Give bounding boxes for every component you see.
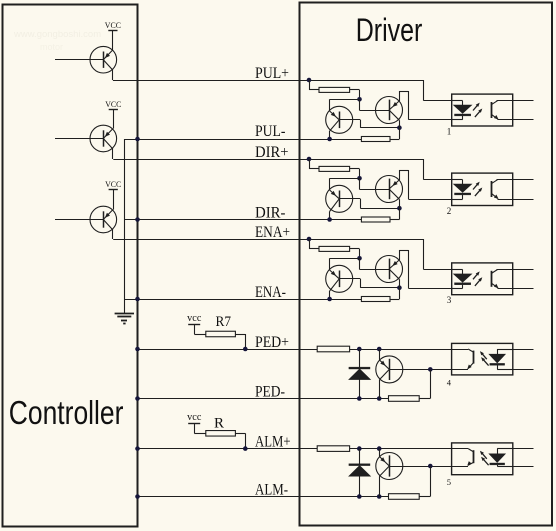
junction [377, 396, 382, 401]
resistor R7 [206, 331, 236, 337]
label Driver [356, 12, 423, 48]
junction [397, 285, 402, 290]
wire [330, 178, 360, 190]
node DIR- [255, 205, 286, 222]
resistor R1a [319, 87, 350, 92]
wire [112, 149, 114, 159]
power VCC Q3 [105, 179, 121, 189]
wire [350, 90, 360, 100]
wire [379, 380, 381, 399]
transistor Q9 [376, 256, 403, 283]
wire [235, 334, 245, 349]
wire [424, 80, 452, 101]
wire PUL+ [113, 80, 424, 82]
driver box [300, 3, 553, 526]
node DIR+ [255, 144, 289, 161]
junction [357, 176, 362, 181]
wire [390, 139, 399, 141]
svg-text:3: 3 [447, 295, 452, 305]
wire [379, 349, 381, 360]
controller box [3, 5, 138, 527]
wire [399, 120, 401, 139]
junction [357, 396, 362, 401]
wire DIR- [124, 219, 361, 221]
junction [397, 125, 402, 130]
svg-text:vcc: vcc [187, 412, 202, 423]
node PED- [255, 384, 285, 401]
wire PED+ [138, 349, 452, 351]
junction [428, 367, 433, 372]
junction [243, 347, 248, 352]
wire [389, 369, 451, 371]
resistor R5a [317, 446, 349, 452]
wire [329, 131, 331, 139]
svg-text:VCC: VCC [105, 20, 121, 30]
wire DIR+ [113, 159, 423, 161]
wire [419, 466, 430, 497]
junction [377, 347, 382, 352]
resistor R2b [361, 217, 390, 222]
transistor Q5 [376, 97, 403, 124]
wire [360, 178, 390, 189]
node R7 value [216, 314, 232, 330]
svg-text:PUL-: PUL- [255, 123, 286, 140]
node PED+ [255, 334, 289, 351]
power VCC Q1 [105, 20, 121, 31]
wire [399, 279, 401, 299]
junction [307, 78, 312, 83]
svg-text:DIR+: DIR+ [255, 144, 289, 161]
node pin 5 [447, 477, 451, 487]
junction [377, 494, 382, 499]
junction [357, 446, 362, 451]
wire [112, 230, 114, 239]
wire [513, 369, 534, 371]
wire [112, 30, 114, 49]
wire [350, 249, 360, 259]
junction [135, 137, 140, 142]
svg-text:ENA+: ENA+ [255, 224, 290, 241]
svg-text:PUL+: PUL+ [255, 65, 289, 82]
wire [498, 119, 534, 121]
wire [124, 139, 126, 313]
wire [389, 466, 451, 468]
junction [357, 347, 362, 352]
wire [360, 99, 390, 110]
svg-text:PED+: PED+ [255, 334, 289, 351]
junction [397, 206, 402, 211]
resistor R4a [317, 346, 349, 352]
node pin 4 [447, 377, 452, 387]
node pin 2 [447, 206, 452, 216]
wire [113, 189, 115, 209]
svg-text:DIR-: DIR- [255, 205, 286, 222]
svg-text:ENA-: ENA- [255, 284, 286, 301]
svg-text:2: 2 [447, 206, 452, 216]
wire [399, 170, 452, 200]
wire [424, 239, 452, 270]
node R value [214, 416, 225, 432]
transistor Q6 [326, 185, 353, 212]
junction [357, 256, 362, 261]
wire PED- [138, 398, 389, 400]
wire [330, 99, 360, 111]
svg-text:vcc: vcc [187, 313, 202, 324]
junction [357, 494, 362, 499]
transistor Q2 [55, 125, 117, 152]
power VCC R7 [187, 313, 202, 325]
node ENA+ [255, 224, 290, 241]
junction [307, 157, 312, 162]
svg-text:PED-: PED- [255, 384, 285, 401]
transistor Q7 [376, 176, 403, 203]
wire [497, 100, 534, 102]
wire [112, 70, 114, 80]
wire [339, 279, 399, 288]
svg-text:ALM+: ALM+ [255, 434, 291, 451]
svg-text:Driver: Driver [356, 12, 423, 48]
node pin 3 [447, 295, 452, 305]
wire [513, 448, 534, 450]
wire [399, 199, 401, 219]
wire [309, 80, 319, 90]
svg-text:ALM-: ALM- [255, 482, 288, 499]
transistor Q3 [55, 206, 117, 233]
wire [329, 212, 331, 220]
transistor Q10 [376, 356, 403, 383]
junction [327, 297, 332, 302]
optocoupler U1 [452, 94, 513, 126]
svg-text:Controller: Controller [9, 394, 124, 431]
wire [497, 179, 534, 181]
wire [390, 219, 399, 221]
power VCC R [187, 412, 202, 423]
wire [309, 239, 319, 249]
transistor Q8 [326, 265, 353, 292]
node PUL+ [255, 65, 289, 82]
junction [243, 446, 248, 451]
wire [399, 250, 452, 289]
wire [194, 424, 206, 434]
wire [329, 291, 331, 299]
svg-text:4: 4 [447, 377, 452, 387]
svg-text:1: 1 [447, 127, 452, 137]
wire [452, 466, 468, 468]
optocoupler U4 [452, 343, 513, 375]
wire [419, 369, 430, 398]
optocoupler U2 [452, 173, 513, 205]
wire [350, 169, 360, 179]
wire [497, 269, 534, 271]
node pin 1 [447, 127, 452, 137]
svg-text:5: 5 [447, 477, 451, 487]
wire ENA- [124, 299, 361, 301]
resistor R2a [319, 166, 350, 171]
wire ALM- [138, 496, 389, 498]
junction [135, 347, 140, 352]
svg-text:R7: R7 [216, 314, 232, 330]
optocoupler U3 [452, 263, 513, 295]
diode D2 [349, 449, 370, 497]
svg-text:motor: motor [40, 42, 63, 52]
wire [309, 159, 319, 169]
wire [235, 433, 245, 448]
transistor Q4 [326, 106, 353, 133]
power VCC Q2 [105, 99, 121, 109]
transistor Q1 [55, 46, 117, 73]
svg-text:R: R [214, 416, 225, 432]
wire [390, 299, 399, 301]
resistor R5b [389, 494, 420, 500]
wire [452, 369, 468, 371]
junction [327, 217, 332, 222]
resistor R4b [389, 396, 420, 402]
resistor R3b [361, 297, 390, 302]
junction [428, 464, 433, 469]
wire [379, 476, 381, 496]
wire ENA+ [113, 239, 423, 241]
resistor R [206, 431, 236, 437]
svg-text:VCC: VCC [105, 179, 121, 189]
wire PUL- [124, 139, 361, 141]
node ENA- [255, 284, 286, 301]
resistor R1b [361, 137, 390, 142]
wire [399, 91, 452, 120]
diode D1 [349, 349, 370, 399]
junction [377, 446, 382, 451]
wire [330, 258, 360, 270]
wire [113, 110, 115, 129]
wire [194, 325, 206, 335]
svg-text:www.gongboshi.com: www.gongboshi.com [13, 29, 101, 40]
wire [498, 199, 534, 201]
watermark [13, 29, 101, 52]
node ALM+ [255, 434, 291, 451]
junction [135, 446, 140, 451]
svg-text:VCC: VCC [105, 99, 121, 109]
node PUL- [255, 123, 286, 140]
resistor R3a [319, 246, 350, 251]
wire [339, 120, 399, 128]
optocoupler U5 [452, 443, 513, 475]
wire ALM+ [138, 448, 452, 450]
junction [327, 137, 332, 142]
junction [135, 396, 140, 401]
junction [135, 297, 140, 302]
junction [135, 217, 140, 222]
junction [307, 237, 312, 242]
wire [360, 258, 390, 269]
wire [513, 349, 534, 351]
wire [339, 199, 399, 209]
wire [379, 449, 381, 457]
node ALM- [255, 482, 288, 499]
label Controller [9, 394, 124, 431]
junction [135, 494, 140, 499]
wire [498, 288, 534, 290]
ground [115, 314, 134, 324]
transistor Q11 [376, 453, 403, 480]
wire [424, 159, 452, 180]
junction [357, 97, 362, 102]
wire [513, 466, 534, 468]
